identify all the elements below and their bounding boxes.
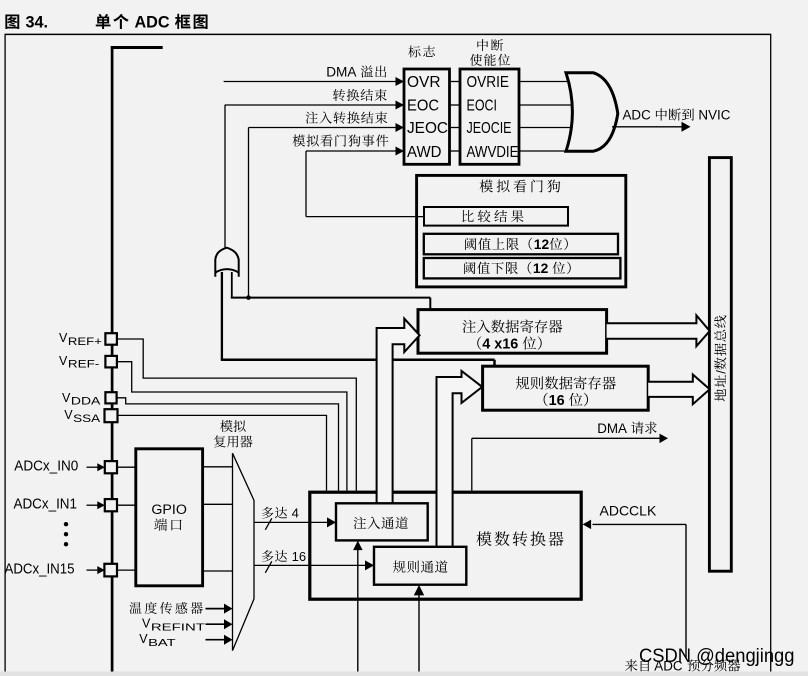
svg-text:JEOC: JEOC: [407, 120, 448, 137]
wire drop into regular data register top: [493, 360, 496, 368]
wire VDDA: [117, 398, 339, 491]
bus-width slash on 多达16: [265, 561, 272, 573]
svg-text:GPIO: GPIO: [151, 502, 186, 518]
arrow into EOC: [396, 101, 405, 110]
wire pad IN15 to GPIO: [117, 569, 136, 571]
title rule: [5, 33, 772, 35]
wire enable to OR gate 0: [519, 81, 573, 83]
svg-text:NVIC: NVIC: [695, 108, 731, 123]
label 规则通道: [393, 560, 406, 572]
label 多达 16: [262, 550, 274, 562]
injected data register box: [418, 310, 607, 354]
left bus vertical line: [111, 46, 114, 676]
small OR gate (conversion end): [215, 248, 238, 273]
wire flag-enable connector 3: [450, 150, 461, 152]
arrow into pad ADCx_IN0: [97, 463, 105, 471]
wire arrow line ADCx_IN0: [87, 466, 98, 468]
svg-text:EOCI: EOCI: [467, 98, 498, 115]
svg-text:ADCx_IN1: ADCx_IN1: [14, 496, 78, 512]
svg-text:ADCCLK: ADCCLK: [600, 503, 657, 519]
svg-text:BAT: BAT: [148, 637, 176, 649]
label 注入通道: [354, 517, 367, 529]
arrow into AWD: [396, 147, 405, 156]
svg-text:JEOCIE: JEOCIE: [467, 120, 512, 137]
label 标志 (flags): [408, 46, 420, 58]
svg-text:V: V: [62, 391, 71, 405]
wire GPIO to mux row1: [203, 503, 233, 505]
wire down into injected data register top: [429, 298, 431, 310]
label 模拟看门狗: [480, 180, 493, 193]
wire GPIO to mux row15: [203, 570, 233, 572]
label （16 位）: [544, 393, 548, 406]
svg-text:4: 4: [288, 506, 299, 521]
arrow into mux VBAT: [224, 635, 233, 645]
label 中断 line1: [477, 39, 488, 51]
arrow up into regular channels: [414, 585, 424, 596]
svg-text:V: V: [139, 632, 148, 646]
wire pad IN1 to GPIO: [117, 504, 136, 506]
wire flag-enable connector 0: [450, 81, 461, 83]
ADC converter box 模数转换器: [310, 492, 581, 599]
wire DMA overrun: [224, 81, 397, 83]
injected channels box 注入通道: [336, 503, 428, 540]
label 阈值下限（12 位）: [464, 262, 475, 274]
wire VSSA: [118, 415, 327, 490]
label （4 x16 位）: [477, 336, 481, 349]
analog watchdog outer box: [417, 175, 626, 287]
wire small gate right input: [231, 272, 233, 298]
wire analog watchdog event: [306, 150, 396, 152]
interrupt enable box: [460, 69, 519, 164]
title CJK 图: [5, 14, 19, 29]
wire VREF+: [117, 339, 356, 491]
wire to regular channels from bottom: [418, 594, 420, 676]
svg-text:REF-: REF-: [68, 359, 100, 371]
arrow ADCCLK into converter: [583, 520, 592, 530]
label 转换结束: [333, 89, 345, 101]
wire flag-enable connector 1: [450, 104, 461, 106]
svg-text:EOC: EOC: [407, 98, 439, 115]
flag register box: [404, 69, 450, 164]
label 注入数据寄存器: [462, 320, 475, 333]
wire arrow line VREFINT: [206, 623, 225, 625]
svg-text:ADC: ADC: [131, 14, 174, 32]
wire 多达 4: [254, 521, 328, 523]
arrow DMA request: [660, 434, 669, 444]
label 模拟看门狗事件: [293, 135, 306, 147]
left page border: [4, 34, 6, 676]
bus arrow: injected data register to address/data bus: [607, 315, 710, 346]
label 复用器: [214, 435, 226, 447]
regular channels box 规则通道: [374, 547, 466, 585]
svg-text:V: V: [64, 408, 73, 422]
arrow into OVR: [396, 77, 405, 86]
svg-text:/: /: [713, 370, 728, 374]
label 多达 4: [262, 507, 274, 519]
pad VDDA: [105, 392, 116, 403]
svg-text:V: V: [59, 354, 68, 368]
arrow into pad ADCx_IN1: [97, 501, 105, 509]
wire enable to OR gate 2: [519, 127, 573, 129]
svg-text:DMA: DMA: [597, 421, 630, 436]
svg-text:ADC: ADC: [623, 108, 655, 123]
arrow into JEOC: [396, 123, 405, 132]
label 阈值上限（12位）: [465, 238, 476, 250]
wire arrow line VBAT: [206, 639, 225, 641]
svg-text:DDA: DDA: [71, 396, 101, 408]
pad VREF+: [105, 333, 117, 345]
label 模数转换器: [476, 531, 491, 546]
analog multiplexer trapezoid: [233, 453, 255, 650]
bus arrow: injected channels to injected data register: [377, 319, 420, 504]
svg-text:REF+: REF+: [68, 336, 102, 348]
address/data bus: [709, 158, 731, 572]
arrow into injected channels: [327, 517, 336, 527]
svg-text:34.: 34.: [26, 14, 49, 32]
wire to injected channels from bottom: [357, 550, 359, 676]
wire VREF-: [117, 362, 347, 491]
arrow into mux VREFINT: [224, 619, 233, 629]
svg-text:ADCx_IN0: ADCx_IN0: [14, 459, 78, 475]
wire DMA request horizontal: [472, 437, 660, 439]
label 使能位 line2: [470, 54, 482, 66]
ellipsis dots for ADCx_IN channels: [64, 522, 68, 526]
svg-text:OVR: OVR: [407, 74, 441, 91]
arrow into mux 温度传感器: [224, 604, 233, 614]
OR gate U1 (ADC interrupt): [566, 73, 618, 151]
svg-text:DMA: DMA: [326, 65, 359, 80]
threshold low box: [424, 258, 621, 278]
arrow up into injected channels: [353, 541, 363, 551]
wire compare result to AWD: [306, 216, 424, 218]
svg-text:ADCx_IN15: ADCx_IN15: [5, 562, 75, 578]
svg-text:12: 12: [533, 261, 552, 276]
label 规则数据寄存器: [516, 376, 530, 389]
label 比较结果: [462, 210, 473, 222]
svg-text:V: V: [59, 331, 68, 345]
label 端口: [154, 518, 167, 531]
svg-text:AWVDIE: AWVDIE: [467, 144, 519, 161]
wire junction horizontal to injected register: [231, 297, 430, 299]
pad VREF-: [105, 356, 117, 368]
right page border: [770, 34, 772, 676]
label 模拟: [220, 420, 233, 432]
label 地址/数据总线 (rotated): [713, 315, 728, 401]
arrow ADC interrupt to NVIC: [682, 122, 691, 132]
svg-text:CSDN @dengjingg: CSDN @dengjingg: [639, 646, 795, 667]
wire EOC corner down to small OR gate: [224, 105, 226, 249]
wire 多达 16: [254, 564, 366, 566]
label 来自 ADC 预分频器: [625, 659, 637, 671]
svg-text:REFINT: REFINT: [151, 621, 206, 633]
wire AWD corner down: [305, 151, 307, 217]
svg-text:12: 12: [534, 237, 550, 252]
label 注入转换结束: [306, 112, 318, 124]
wire pad IN0 to GPIO: [117, 466, 136, 468]
wire enable to OR gate 1: [519, 104, 573, 106]
label 温度传感器: [129, 602, 141, 614]
wire DMA request vertical: [471, 438, 473, 491]
wire end of conversion: [225, 104, 397, 106]
svg-text:16: 16: [288, 549, 306, 564]
svg-text:OVRIE: OVRIE: [467, 74, 510, 91]
arrow into pad ADCx_IN15: [97, 566, 105, 574]
wire arrow line ADCx_IN15: [87, 569, 98, 571]
pad ADCx_IN1: [105, 499, 117, 511]
wire small gate left input horizontal to regular data register: [221, 358, 495, 361]
pad ADCx_IN0: [105, 461, 117, 473]
wire injected conversion end: [249, 127, 397, 129]
title 单个 ADC 框图: [96, 14, 111, 29]
pad ADCx_IN15: [104, 564, 117, 577]
regular data register box: [483, 366, 649, 410]
pad VSSA: [105, 409, 118, 422]
threshold high box: [424, 234, 618, 255]
GPIO port box: [136, 449, 203, 586]
junction dot JEOC/gate wire: [246, 295, 251, 300]
bottom gray strip: [0, 672, 808, 676]
wire arrow line ADCx_IN1: [87, 504, 98, 506]
wire OR gate output: [612, 126, 682, 128]
wire JEOC corner down: [248, 128, 250, 298]
bus arrow: regular channels to regular data register: [437, 371, 483, 547]
wire small gate left input from injected bus: [221, 272, 223, 360]
svg-text:SSA: SSA: [73, 413, 101, 425]
wire flag-enable connector 2: [450, 127, 461, 129]
svg-text:16: 16: [549, 393, 569, 409]
svg-text:4 x16: 4 x16: [482, 337, 522, 353]
wire ADCCLK horizontal: [593, 523, 687, 525]
svg-text:V: V: [142, 617, 151, 631]
arrow into regular channels: [365, 560, 374, 570]
wire GPIO to mux row0: [203, 466, 233, 468]
bus arrow: regular data register to address/data bus: [648, 375, 710, 405]
wire arrow line 温度传感器: [206, 608, 225, 610]
wire ADCCLK vertical: [685, 524, 687, 657]
wire enable to OR gate 3: [519, 150, 573, 152]
svg-text:AWD: AWD: [407, 144, 442, 161]
compare result box: [424, 207, 568, 226]
bus-width slash on 多达4: [265, 518, 272, 530]
left bus top cap: [111, 46, 163, 49]
